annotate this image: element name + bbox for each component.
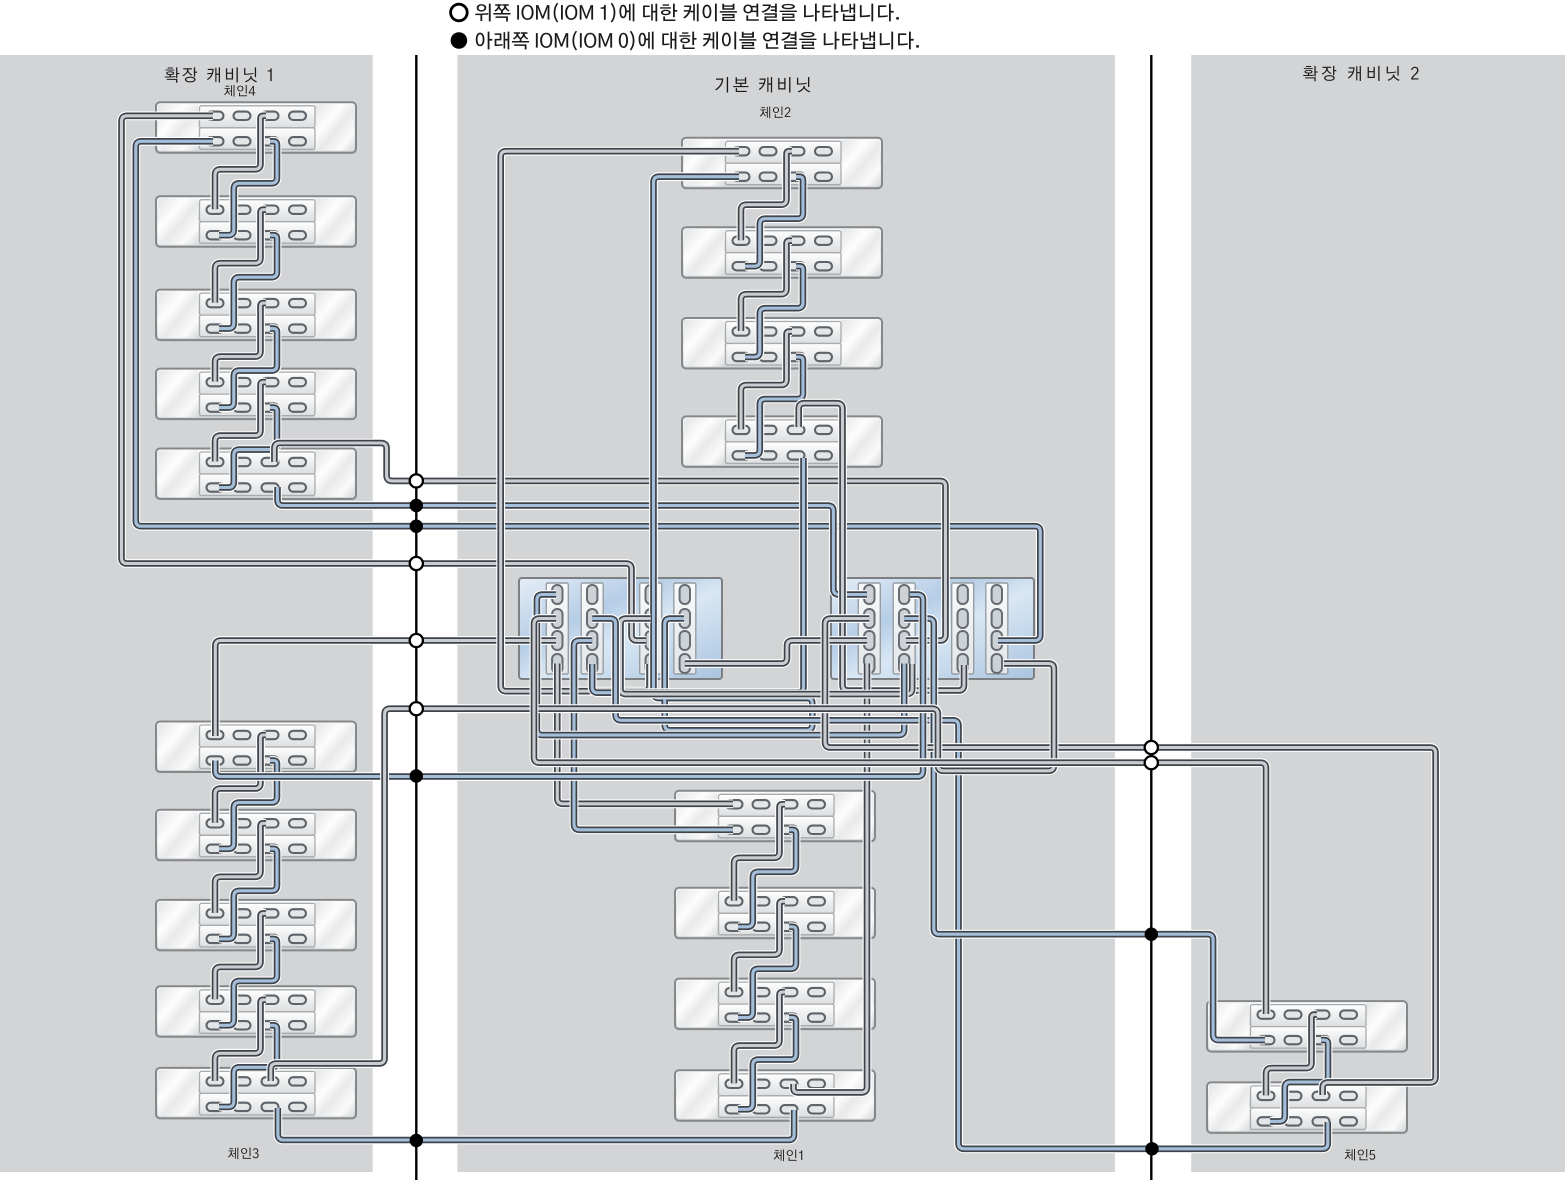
disk shelf L1 xyxy=(156,102,356,153)
cabinet panel: expansion cabinet 2 xyxy=(1191,55,1565,1172)
wire B1-B2 IOM0 xyxy=(219,761,277,849)
wire B4-B5 IOM1 xyxy=(215,1000,266,1081)
wire R1-R2 IOM1 xyxy=(1266,1015,1317,1096)
wire N3-N4 IOM1 xyxy=(734,992,785,1083)
disk shelf M1 xyxy=(682,138,882,189)
wire L2-L3 IOM0 xyxy=(219,235,277,328)
wire M2-M3 IOM1 xyxy=(741,241,792,331)
node IOM1 junction (open) at 1151,748 xyxy=(1145,741,1158,754)
wire L1-L2 IOM0 xyxy=(219,141,277,235)
disk shelf M2 xyxy=(682,227,882,278)
wire M4-IOM0-p2 to C1 hba2 p3 xyxy=(592,458,803,693)
controller U1 xyxy=(519,578,722,679)
wire M1-IOM1-p0 to C1 hba3 p3 xyxy=(501,151,739,691)
wire N1-IOM1-p0 to C1 hba1 p3 xyxy=(557,664,733,804)
controller U2 xyxy=(831,578,1034,679)
node IOM0 junction (filled) at 1152,1149 xyxy=(1145,1142,1158,1155)
wire M3-M4 IOM0 xyxy=(745,357,803,455)
wire B5-IOM1-p2 to C2 hba4 p3 xyxy=(271,664,1054,1082)
cabinet boundary line right xyxy=(1150,55,1152,1180)
node IOM0 junction (filled) at 416,776 xyxy=(410,769,423,782)
wire L3-L4 IOM0 xyxy=(219,329,277,408)
disk shelf B5 xyxy=(156,1068,356,1119)
node IOM0 junction (filled) at 416,526 xyxy=(410,520,423,533)
wire L3-L4 IOM1 xyxy=(215,303,266,382)
disk shelf R1 xyxy=(1207,1001,1407,1052)
wire N1-IOM0-p0 to C1 hba2 p2 xyxy=(574,641,733,830)
wire M1-M2 IOM1 xyxy=(741,151,792,240)
wire R2-IOM1-p2 to C2 hba1 p1 xyxy=(825,619,1436,1096)
wire B2-B3 IOM1 xyxy=(215,823,266,913)
wire N1-N2 IOM1 xyxy=(734,804,785,901)
cabinet panel: base cabinet xyxy=(457,55,1115,1172)
node IOM0 junction (filled) at 1151,934 xyxy=(1145,928,1158,941)
wire L4-L5 IOM1 xyxy=(215,382,266,461)
wire N3-N4 IOM0 xyxy=(738,1018,796,1110)
wire B3-B4 IOM1 xyxy=(215,913,266,999)
cabinet boundary line left xyxy=(415,55,417,1180)
node IOM1 junction (open) at 416,640 xyxy=(410,634,423,647)
wire R2-IOM0-p2 to C1 hba2 p1 xyxy=(592,619,1328,1149)
wire B1-IOM0-p0 to C2 hba2 p0 xyxy=(215,595,923,777)
wire N4-IOM1-p2 to C2 hba1 p3 xyxy=(794,664,868,1093)
wire C2 hba2 p3 to C1 hba1 p0 cluster xyxy=(537,595,904,736)
disk shelf L4 xyxy=(156,369,356,420)
wire M1-IOM0-p0 to C1 hba4 p1 xyxy=(654,177,813,731)
disk shelf B4 xyxy=(156,986,356,1037)
text label chain5 xyxy=(1345,1149,1376,1161)
text legend line 2 xyxy=(476,31,919,51)
cabinet panel: expansion cabinet 1 xyxy=(0,55,373,1172)
legend: filled circle = IOM0 xyxy=(451,32,468,49)
wire R1-IOM1-p0 to C1 hba1 p1 xyxy=(534,619,1266,1015)
wire B1-IOM1-p0 to C1 hba1 p2 xyxy=(215,641,556,737)
wire N2-N3 IOM0 xyxy=(738,927,796,1018)
text label chain1 xyxy=(774,1150,803,1162)
node IOM0 junction (filled) at 416,1140 xyxy=(410,1134,423,1147)
disk shelf N2 xyxy=(675,888,875,939)
text title expansion cabinet 1 xyxy=(165,67,272,82)
disk shelf R2 xyxy=(1207,1082,1407,1133)
disk shelf B2 xyxy=(156,810,356,861)
wire L1-L2 IOM1 xyxy=(215,116,266,209)
legend: open circle = IOM1 xyxy=(451,4,468,21)
wire L1-IOM0-p0 to C2 hba4 p2 xyxy=(136,141,1041,640)
wire L2-L3 IOM1 xyxy=(215,210,266,303)
disk shelf M3 xyxy=(682,318,882,369)
wire L4-L5 IOM0 xyxy=(219,408,277,488)
text title base cabinet xyxy=(715,77,810,93)
wire L5-IOM0-p2 to C2 hba1 p0 xyxy=(278,487,868,595)
text label chain3 xyxy=(228,1148,259,1160)
text title expansion cabinet 2 xyxy=(1303,66,1418,81)
wire R1-IOM0-p0 to C2 hba2 p1 xyxy=(904,619,1265,1041)
wire L1-IOM1-p0 to C1 hba3 p2 xyxy=(122,116,647,641)
wire C1 hba3 p1 stub route xyxy=(621,619,913,695)
wire M3-M4 IOM1 xyxy=(741,332,792,430)
text label chain4 xyxy=(224,85,255,97)
node IOM0 junction (filled) at 416,506 xyxy=(410,499,423,512)
disk shelf N1 xyxy=(675,791,875,842)
wire L5-IOM1-p2 to C2 hba2 p2 xyxy=(274,443,945,641)
wire M1-M2 IOM0 xyxy=(745,177,803,267)
wire R1-R2 IOM0 xyxy=(1270,1040,1328,1121)
wire B5-IOM0-p2 to N4-IOM0-p2 xyxy=(278,1108,794,1140)
text legend line 1 xyxy=(475,3,899,23)
wire M2-M3 IOM0 xyxy=(745,266,803,357)
disk shelf N3 xyxy=(675,979,875,1030)
wire B1-B2 IOM1 xyxy=(215,735,266,823)
wire M4-IOM1-p2 to C2 hba3 p3 xyxy=(799,403,964,690)
disk shelf M4 xyxy=(682,416,882,467)
node IOM1 junction (open) at 416,709 xyxy=(410,702,423,715)
wire B3-B4 IOM0 xyxy=(219,939,277,1025)
wire C1 hba4 p3 to C2 hba1 p2 cluster xyxy=(685,641,867,664)
text label chain2 xyxy=(760,107,790,119)
disk shelf N4 xyxy=(675,1070,875,1121)
disk shelf L2 xyxy=(156,196,356,247)
disk shelf B1 xyxy=(156,722,356,773)
disk shelf B3 xyxy=(156,900,356,951)
node IOM1 junction (open) at 416,481 xyxy=(410,474,423,487)
wire B4-B5 IOM0 xyxy=(219,1025,277,1107)
wire N2-N3 IOM1 xyxy=(734,901,785,991)
disk shelf L3 xyxy=(156,290,356,341)
wire N1-N2 IOM0 xyxy=(738,830,796,927)
disk shelf L5 xyxy=(156,449,356,500)
wire B2-B3 IOM0 xyxy=(219,849,277,939)
node IOM1 junction (open) at 416,564 xyxy=(410,557,423,570)
node IOM1 junction (open) at 1151,763 xyxy=(1145,756,1158,769)
